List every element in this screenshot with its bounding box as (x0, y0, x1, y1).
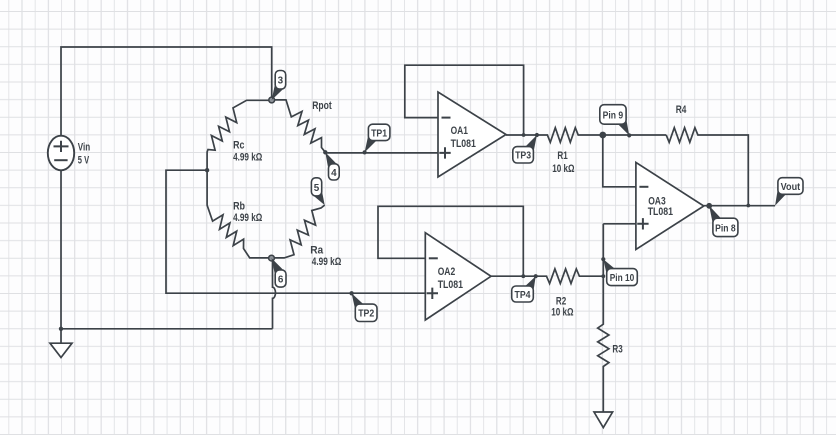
wire OA1 feedback loop (output to - input) (405, 65, 524, 135)
wire OA1 output + resistor R1 (506, 128, 603, 143)
svg-text:10 kΩ: 10 kΩ (551, 307, 573, 319)
resistor Rpot (bridge top-right arm) (272, 100, 326, 152)
wire pin 10 net down through resistor R3 to ground (598, 224, 609, 412)
ground symbol GND1 (50, 343, 72, 357)
svg-text:TP4: TP4 (515, 289, 531, 301)
wire ground rail to bridge bottom (61, 328, 273, 330)
Pin 10 callout (603, 259, 637, 285)
svg-text:4.99 kΩ: 4.99 kΩ (233, 212, 262, 224)
svg-text:4.99 kΩ: 4.99 kΩ (233, 151, 262, 163)
svg-text:OA1: OA1 (451, 125, 468, 137)
svg-text:Vout: Vout (781, 181, 801, 193)
voltage source Vin 5V (48, 136, 91, 171)
svg-text:4.99 kΩ: 4.99 kΩ (312, 256, 342, 268)
TP4 anchor dot (534, 274, 538, 278)
node 5 callout (311, 178, 324, 205)
ground symbol GND2 (594, 412, 613, 428)
junction OA3 output / Pin 8 anchor (706, 203, 712, 209)
wire OA2 feedback loop (output to - input) (378, 206, 523, 276)
resistor Ra (bridge bottom-right arm) (272, 205, 325, 258)
Pin 8 callout (709, 206, 738, 237)
svg-text:5: 5 (314, 182, 320, 194)
wire node 6 down to ground rail with hop over TP2 wire (273, 258, 276, 329)
wire OA3 output to Vout (704, 205, 775, 207)
svg-text:OA2: OA2 (438, 266, 456, 278)
svg-text:Rpot: Rpot (312, 100, 332, 112)
wire Vin+ to node 3 (top rail) (61, 47, 272, 136)
svg-text:TL081: TL081 (438, 279, 463, 291)
svg-text:TP2: TP2 (358, 308, 374, 320)
TP1 callout (365, 124, 390, 152)
svg-text:Pin 8: Pin 8 (715, 222, 736, 234)
svg-text:R1: R1 (557, 150, 567, 162)
resistor R4 and wire down to output net (666, 128, 748, 206)
TP3 anchor dot (535, 133, 539, 137)
svg-text:4: 4 (331, 167, 337, 179)
TP4 callout (512, 276, 536, 302)
svg-text:10 kΩ: 10 kΩ (552, 163, 574, 175)
junction R2 to pin 10 net (601, 274, 605, 278)
svg-text:TL081: TL081 (451, 138, 476, 150)
node 4 callout (325, 152, 339, 180)
svg-text:6: 6 (278, 273, 284, 285)
svg-text:R3: R3 (612, 344, 622, 356)
junction at Vin ground node (59, 327, 63, 331)
node 3 port dot (269, 97, 275, 103)
node 6 port dot (269, 255, 275, 261)
junction OA2 feedback (521, 274, 525, 278)
TP1 anchor dot (363, 150, 367, 154)
Pin 10 anchor dot (601, 257, 605, 261)
junction pin 9 node (599, 132, 606, 139)
junction OA1 feedback (522, 133, 526, 137)
svg-text:Pin 9: Pin 9 (603, 109, 624, 121)
svg-text:TP1: TP1 (371, 127, 387, 139)
svg-text:Ra: Ra (310, 244, 324, 256)
Pin 9 anchor dot (627, 133, 631, 137)
svg-text:R4: R4 (676, 104, 687, 116)
junction R4 to output net (746, 204, 750, 208)
resistor Rc (bridge top-left arm) (207, 100, 272, 170)
TP2 anchor dot (349, 291, 353, 295)
Vout callout (775, 178, 803, 206)
op-amp OA1 TL081 (438, 92, 506, 177)
node 6 callout (272, 258, 287, 287)
wire OA3 + input (603, 223, 636, 225)
svg-text:Rc: Rc (233, 140, 244, 152)
op-amp OA2 TL081 (425, 233, 491, 320)
TP3 callout (513, 135, 537, 163)
wire bridge left node to OA2 + input (TP2 net) (166, 170, 425, 293)
svg-text:Vin: Vin (78, 141, 91, 153)
wire R1 to R4 (pin 9 net) (603, 134, 666, 136)
svg-text:3: 3 (278, 75, 284, 87)
wire OA2 output + resistor R2 (491, 269, 603, 284)
svg-text:Rb: Rb (233, 201, 245, 213)
wire pin 9 node down to OA3 - input (603, 135, 636, 187)
junction at bridge left node (205, 168, 209, 172)
svg-text:Pin 10: Pin 10 (610, 272, 635, 284)
svg-text:TL081: TL081 (648, 206, 673, 218)
op-amp OA3 TL081 (636, 162, 704, 249)
resistor Rb (bridge bottom-left arm) (207, 170, 271, 258)
wire Vin- down to ground (60, 171, 62, 344)
wire node 4 to OA1 + input (325, 152, 438, 154)
svg-text:TP3: TP3 (515, 150, 531, 162)
node 3 callout (272, 71, 286, 101)
svg-text:5 V: 5 V (78, 154, 90, 166)
node 4 dot (323, 150, 327, 154)
TP2 callout (352, 293, 377, 321)
Pin 9 callout (600, 105, 629, 136)
